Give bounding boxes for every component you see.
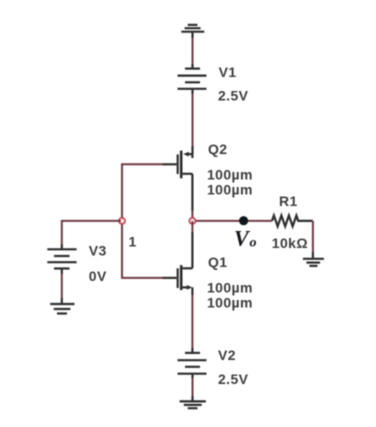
svg-text:Q1: Q1 <box>208 254 227 270</box>
wire gate bus to Q1 gate <box>121 277 163 279</box>
svg-text:V1: V1 <box>219 64 237 80</box>
resistor R1 <box>272 216 313 227</box>
ground (left, below V3) <box>50 304 74 314</box>
svg-text:100µm: 100µm <box>207 182 253 198</box>
wire V2 to bottom ground <box>191 374 193 402</box>
wire top ground to V1 <box>191 32 193 69</box>
svg-text:0V: 0V <box>89 268 107 284</box>
svg-text:V: V <box>234 226 251 251</box>
ground (top, above V1) <box>181 25 204 32</box>
svg-text:100µm: 100µm <box>207 295 253 311</box>
svg-text:1: 1 <box>129 234 137 250</box>
label Vo <box>234 226 257 251</box>
svg-text:V3: V3 <box>89 243 107 259</box>
wire Q1 source to V2 <box>191 287 193 353</box>
voltage source V1 (battery) <box>178 69 207 89</box>
svg-text:100µm: 100µm <box>207 280 253 296</box>
svg-text:2.5V: 2.5V <box>218 371 249 387</box>
voltage source V3 (battery) <box>47 249 76 268</box>
voltage source V2 (battery) <box>178 353 207 374</box>
wire V3 top lead <box>61 220 63 249</box>
wire gate bus to Q2 gate <box>121 163 163 165</box>
transistor Q1 (NMOS) <box>162 265 192 290</box>
node Vo (solid dot) <box>239 216 248 225</box>
ground (bottom, below V2) <box>180 401 206 408</box>
svg-text:2.5V: 2.5V <box>218 88 249 104</box>
node junction at output (red ring) <box>189 218 195 224</box>
svg-text:Q2: Q2 <box>208 141 227 157</box>
wire V3 to node 1 <box>62 220 121 222</box>
node 1 junction (red ring) <box>119 218 125 224</box>
wire output node to R1 <box>192 220 272 222</box>
svg-text:o: o <box>250 236 257 251</box>
ground (right, below R1) <box>303 259 324 266</box>
wire Q2 drain to output node <box>191 154 193 221</box>
wire V1 to Q2 source <box>191 89 193 154</box>
svg-text:R1: R1 <box>279 193 298 209</box>
wire gate bus vertical (node 1) <box>121 164 123 278</box>
svg-text:V2: V2 <box>218 347 236 363</box>
wire R1 to right ground <box>312 221 314 259</box>
svg-text:100µm: 100µm <box>207 167 253 183</box>
transistor Q2 (PMOS) <box>162 151 192 179</box>
wire V3 to left ground <box>61 269 63 305</box>
svg-text:10kΩ: 10kΩ <box>272 235 308 251</box>
wire output node to Q1 drain <box>191 221 193 268</box>
